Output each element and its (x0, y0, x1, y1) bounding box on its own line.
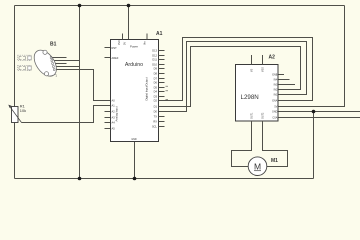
L298N bottom pin labels OUT1 OUT2 (251, 112, 265, 119)
svg-text:OUT1: OUT1 (251, 112, 254, 119)
Arduino A1 body (111, 40, 159, 142)
svg-text:Analog Input: Analog Input (115, 106, 119, 121)
wire L298N OUT2 to motor right terminal (263, 121, 288, 167)
wire Arduino GND pin to bottom rail (134, 142, 136, 179)
svg-text:CSA: CSA (272, 117, 277, 120)
wire B1 pin2 to x80 vertical (52, 60, 80, 62)
wire L298N GND pin to right edge (279, 111, 360, 113)
wire R1 bottom to ground rail (14, 123, 16, 179)
svg-text:D3: D3 (154, 95, 158, 99)
B1 dashed connector bottom (18, 65, 32, 70)
svg-text:IN3: IN3 (274, 84, 278, 87)
potentiometer R1 (8, 105, 21, 123)
Arduino PWM marks (166, 86, 169, 99)
wire GND branch to bottom rail (313, 112, 315, 179)
svg-text:A0: A0 (112, 99, 116, 103)
svg-text:OUT2: OUT2 (262, 112, 265, 119)
L298N top pins (252, 55, 263, 65)
svg-text:TX: TX (154, 115, 158, 119)
wire B1 pin3 stub (53, 63, 67, 65)
wire B1 pin4 to x80 vertical (53, 66, 79, 68)
svg-text:IN2: IN2 (274, 89, 278, 92)
svg-text:A2: A2 (269, 55, 276, 61)
wire L298N IN4 stub (279, 79, 290, 81)
wire bus Arduino D-pin to L298N IN1 (middle loop) (159, 42, 307, 112)
svg-text:D4: D4 (154, 90, 158, 94)
wire bus Arduino D-pin to L298N ENA (outer loop) (159, 38, 313, 101)
Arduino left pin AREF (105, 56, 119, 60)
wire B1 pin1 stub (51, 57, 66, 59)
svg-text:D8: D8 (154, 72, 158, 76)
svg-text:IN4: IN4 (274, 79, 278, 82)
svg-text:5V: 5V (274, 106, 277, 109)
Arduino top pin Vin (146, 34, 148, 40)
svg-text:SCL: SCL (152, 125, 158, 129)
svg-text:VSS: VSS (262, 67, 265, 72)
wire ground bottom rail (15, 178, 314, 180)
svg-text:ENB: ENB (272, 74, 277, 77)
wire L298N OUT1 to motor left terminal (232, 121, 252, 167)
wire 5V drop to Arduino 5V top pin (128, 6, 130, 40)
svg-text:VS: VS (251, 68, 254, 72)
svg-text:5V: 5V (123, 42, 127, 45)
svg-text:Vin: Vin (143, 41, 147, 45)
wire bus Arduino D-pin to L298N IN2 (inner loop) (159, 47, 301, 107)
wire L298N 5V pin to top rail (279, 6, 345, 107)
wire B1 pin5 to Arduino A0 (54, 70, 104, 101)
svg-text:M: M (254, 161, 261, 171)
svg-text:3V3: 3V3 (117, 40, 121, 45)
junction dot bottom rail Arduino GND (133, 177, 137, 181)
svg-text:ENA: ENA (272, 100, 277, 103)
L298N A2 body (236, 65, 279, 122)
wire vertical x80 from 5V rail through B1 taps to ground rail (79, 6, 81, 179)
svg-text:D10: D10 (152, 63, 157, 67)
svg-text:D12: D12 (152, 54, 157, 58)
svg-text:A1: A1 (156, 31, 163, 37)
svg-text:D2: D2 (154, 99, 158, 103)
svg-text:D1: D1 (154, 105, 158, 109)
svg-text:GND: GND (131, 138, 137, 141)
svg-text:D5: D5 (154, 86, 158, 90)
svg-text:IN1: IN1 (274, 94, 278, 97)
svg-text:D9: D9 (154, 67, 158, 71)
svg-text:RX: RX (153, 120, 157, 124)
svg-text:M1: M1 (271, 158, 278, 164)
wire L298N IN3 stub (279, 84, 296, 86)
svg-text:B1: B1 (50, 42, 57, 48)
junction dot L298N GND branch (312, 110, 316, 114)
wire R1 wiper to Arduino A1 (22, 106, 105, 123)
svg-text:D0: D0 (154, 110, 158, 114)
svg-text:D11: D11 (152, 58, 157, 62)
junction dot bottom rail x80 (78, 177, 82, 181)
svg-text:AREF: AREF (112, 56, 119, 60)
rotary encoder B1 body (30, 46, 61, 80)
wire L298N CSA pin to right edge (279, 117, 360, 119)
svg-text:D13: D13 (152, 49, 157, 53)
wire L298N ENB stub (279, 74, 285, 76)
svg-text:RST: RST (112, 46, 118, 50)
svg-text:Power: Power (130, 45, 138, 49)
B1 dashed connector top (18, 55, 32, 60)
Arduino digital pins right edge (159, 51, 165, 127)
svg-text:D6: D6 (154, 81, 158, 85)
junction dot top rail x80 (78, 4, 82, 8)
wire left drop to R1 top (14, 6, 16, 107)
B1 pin pads (50, 57, 55, 71)
svg-text:D7: D7 (154, 77, 158, 81)
Arduino top pin labels (117, 40, 127, 45)
svg-text:A5: A5 (112, 127, 116, 131)
motor M1 (248, 157, 267, 176)
svg-text:Arduino: Arduino (125, 62, 143, 68)
svg-text:10k: 10k (20, 108, 26, 113)
Arduino left pin RST (105, 46, 118, 50)
svg-text:Digital Input/Output: Digital Input/Output (145, 77, 149, 100)
Arduino top pin 3V3 (122, 34, 124, 40)
svg-text:GND: GND (272, 111, 278, 114)
junction dot top rail Arduino 5V (127, 4, 131, 8)
L298N right pins (279, 75, 284, 118)
Arduino analog pins A0-A5 (105, 101, 111, 129)
svg-text:L298N: L298N (241, 94, 259, 101)
wire 5V top rail (15, 5, 345, 7)
